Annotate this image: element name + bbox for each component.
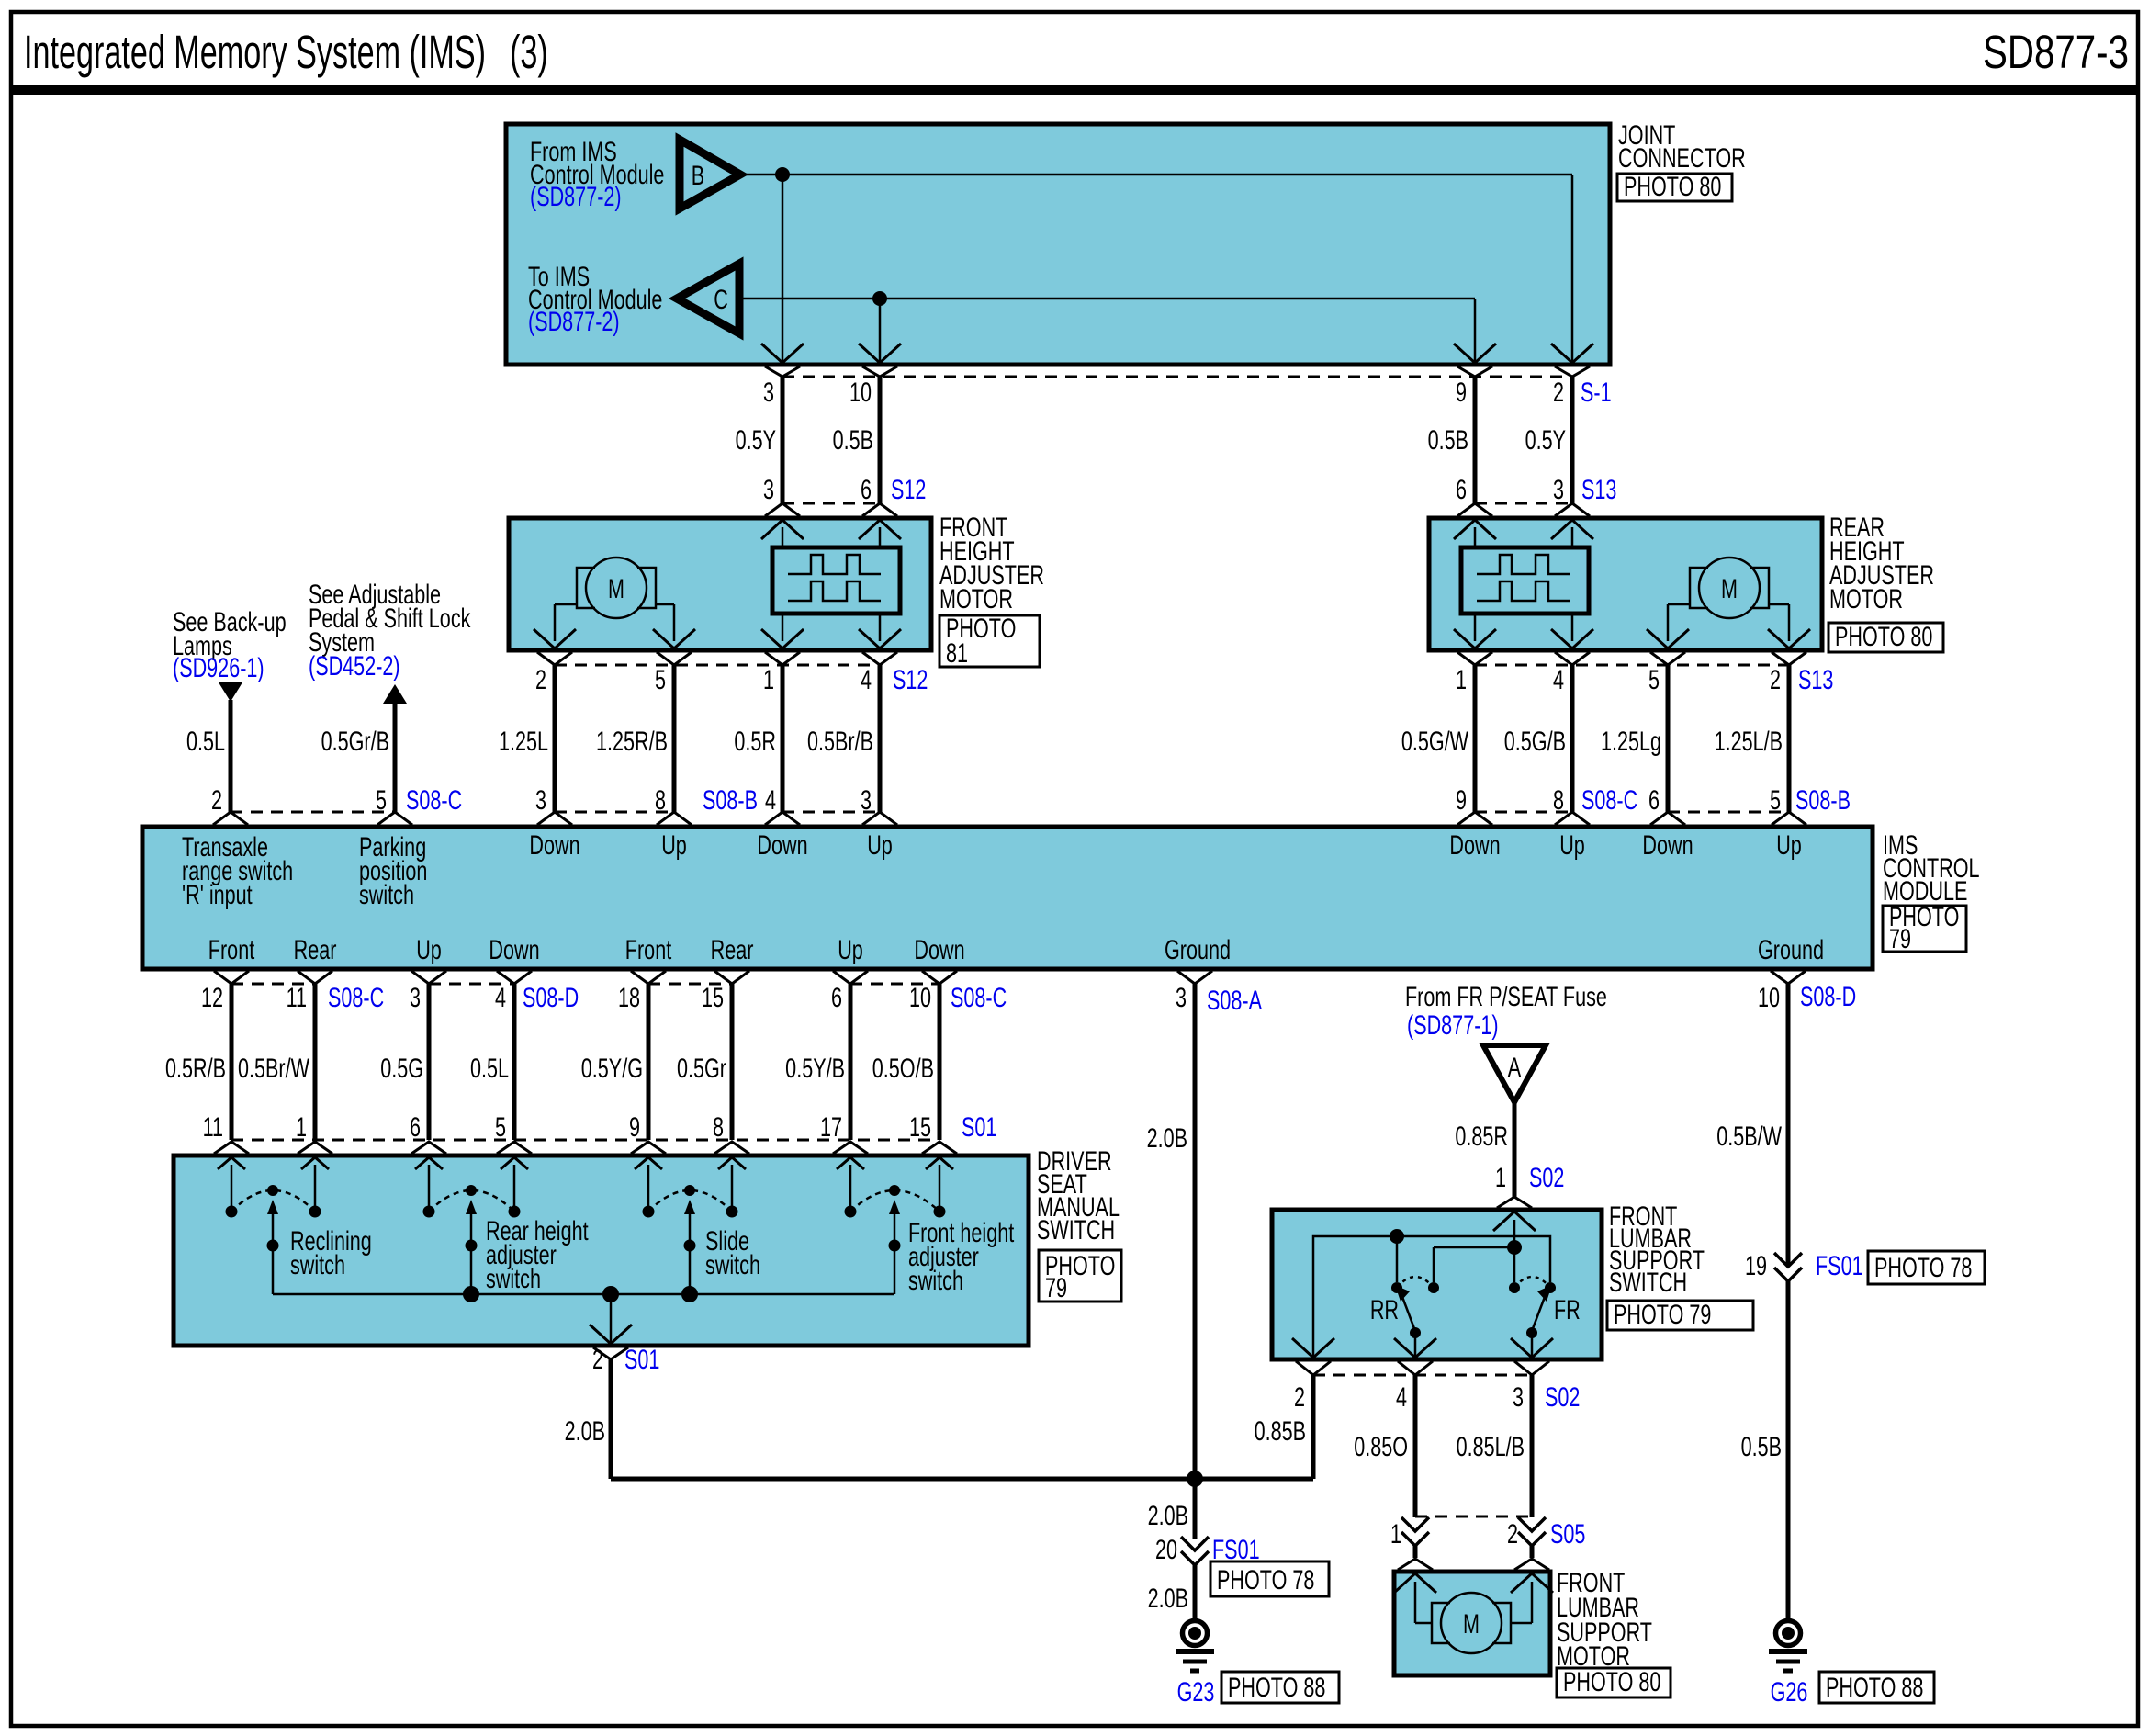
svg-text:4: 4 <box>1396 1381 1407 1412</box>
svg-text:2.0B: 2.0B <box>565 1415 605 1446</box>
svg-text:RR: RR <box>1370 1293 1399 1325</box>
svg-text:0.85R: 0.85R <box>1455 1120 1508 1151</box>
svg-text:M: M <box>1721 572 1738 603</box>
svg-text:1: 1 <box>1495 1161 1506 1192</box>
svg-text:0.5Y: 0.5Y <box>1525 423 1566 455</box>
svg-text:M: M <box>1463 1607 1480 1639</box>
svg-text:2.0B: 2.0B <box>1148 1582 1188 1613</box>
svg-text:Up: Up <box>661 829 687 860</box>
svg-text:(SD877-2): (SD877-2) <box>528 305 620 336</box>
svg-text:SWITCH: SWITCH <box>1609 1266 1687 1297</box>
svg-text:8: 8 <box>1553 783 1564 815</box>
svg-text:0.5Gr: 0.5Gr <box>677 1052 726 1083</box>
svg-text:1: 1 <box>296 1110 307 1142</box>
svg-text:SD877-3: SD877-3 <box>1983 25 2129 78</box>
svg-text:1.25L/B: 1.25L/B <box>1715 725 1783 756</box>
svg-text:1: 1 <box>1456 663 1467 694</box>
svg-text:9: 9 <box>629 1110 640 1142</box>
svg-text:S08-B: S08-B <box>1795 783 1851 815</box>
svg-text:S-1: S-1 <box>1581 376 1612 407</box>
svg-text:Rear: Rear <box>294 933 337 964</box>
svg-text:PHOTO 80: PHOTO 80 <box>1563 1665 1660 1697</box>
svg-text:9: 9 <box>1456 376 1467 407</box>
svg-text:PHOTO 78: PHOTO 78 <box>1217 1563 1314 1595</box>
svg-text:B: B <box>692 159 704 190</box>
svg-text:FR: FR <box>1554 1293 1581 1325</box>
svg-text:1: 1 <box>763 663 774 694</box>
svg-text:15: 15 <box>909 1110 931 1142</box>
svg-text:G23: G23 <box>1177 1675 1215 1707</box>
svg-text:0.5G: 0.5G <box>380 1052 423 1083</box>
svg-text:0.5L: 0.5L <box>470 1052 509 1083</box>
svg-text:S08-D: S08-D <box>1800 980 1856 1011</box>
svg-text:S08-D: S08-D <box>523 981 579 1012</box>
svg-text:S02: S02 <box>1545 1381 1580 1412</box>
svg-text:5: 5 <box>1648 663 1660 694</box>
svg-text:3: 3 <box>1553 473 1564 504</box>
svg-text:Up: Up <box>838 933 863 964</box>
svg-text:PHOTO 78: PHOTO 78 <box>1874 1251 1972 1282</box>
svg-text:10: 10 <box>909 981 931 1012</box>
svg-text:79: 79 <box>1889 922 1911 953</box>
svg-text:(SD926-1): (SD926-1) <box>173 651 264 682</box>
svg-text:17: 17 <box>820 1110 842 1142</box>
svg-text:0.5R/B: 0.5R/B <box>165 1052 226 1083</box>
svg-text:Down: Down <box>529 829 579 860</box>
svg-text:Front: Front <box>208 933 255 964</box>
svg-text:1.25R/B: 1.25R/B <box>596 725 668 756</box>
svg-text:Up: Up <box>416 933 442 964</box>
svg-text:Down: Down <box>489 933 539 964</box>
svg-text:S08-C: S08-C <box>328 981 384 1012</box>
svg-text:Rear: Rear <box>711 933 754 964</box>
svg-text:3: 3 <box>535 783 546 815</box>
svg-text:0.5Y: 0.5Y <box>736 423 776 455</box>
svg-text:S08-C: S08-C <box>406 783 462 815</box>
svg-text:Integrated Memory System (IMS): Integrated Memory System (IMS) <box>24 27 486 78</box>
svg-text:10: 10 <box>849 376 872 407</box>
svg-text:C: C <box>714 283 728 314</box>
svg-text:0.5L: 0.5L <box>186 725 225 756</box>
svg-text:S05: S05 <box>1550 1517 1585 1549</box>
svg-text:0.5Br/B: 0.5Br/B <box>807 725 873 756</box>
svg-text:0.85B: 0.85B <box>1255 1415 1306 1446</box>
svg-text:From FR P/SEAT Fuse: From FR P/SEAT Fuse <box>1405 980 1607 1011</box>
svg-text:S13: S13 <box>1798 663 1833 694</box>
svg-text:S08-C: S08-C <box>951 981 1007 1012</box>
svg-text:S08-B: S08-B <box>703 783 758 815</box>
svg-text:0.5B: 0.5B <box>1741 1430 1782 1461</box>
svg-text:Down: Down <box>1642 829 1693 860</box>
svg-text:SWITCH: SWITCH <box>1037 1213 1115 1245</box>
svg-text:0.5Y/B: 0.5Y/B <box>785 1052 845 1083</box>
svg-text:0.5O/B: 0.5O/B <box>872 1052 934 1083</box>
svg-text:5: 5 <box>376 783 387 815</box>
svg-text:S12: S12 <box>893 663 928 694</box>
svg-text:8: 8 <box>713 1110 724 1142</box>
svg-text:2: 2 <box>1553 376 1564 407</box>
svg-text:5: 5 <box>495 1110 506 1142</box>
svg-text:81: 81 <box>946 637 968 668</box>
svg-text:5: 5 <box>1770 783 1781 815</box>
svg-text:(3): (3) <box>510 27 548 78</box>
svg-text:0.5R: 0.5R <box>734 725 776 756</box>
svg-text:(SD877-1): (SD877-1) <box>1407 1009 1499 1040</box>
svg-text:3: 3 <box>1176 981 1187 1012</box>
svg-text:6: 6 <box>1456 473 1467 504</box>
svg-text:2.0B: 2.0B <box>1148 1499 1188 1530</box>
svg-text:MOTOR: MOTOR <box>1829 582 1903 614</box>
svg-text:10: 10 <box>1758 981 1780 1012</box>
svg-text:switch: switch <box>486 1262 541 1293</box>
svg-text:4: 4 <box>495 981 506 1012</box>
svg-text:PHOTO 88: PHOTO 88 <box>1826 1671 1923 1702</box>
svg-text:PHOTO 88: PHOTO 88 <box>1228 1671 1325 1702</box>
svg-text:(SD452-2): (SD452-2) <box>309 649 400 681</box>
svg-text:20: 20 <box>1155 1533 1177 1564</box>
svg-text:Down: Down <box>914 933 964 964</box>
svg-text:19: 19 <box>1745 1249 1767 1280</box>
svg-text:S12: S12 <box>891 473 926 504</box>
svg-text:FS01: FS01 <box>1816 1249 1863 1280</box>
svg-text:0.5G/B: 0.5G/B <box>1504 725 1566 756</box>
svg-text:0.5Br/W: 0.5Br/W <box>238 1052 309 1083</box>
svg-text:12: 12 <box>201 981 223 1012</box>
svg-text:3: 3 <box>763 473 774 504</box>
svg-text:2: 2 <box>1294 1381 1305 1412</box>
svg-text:CONNECTOR: CONNECTOR <box>1618 141 1746 173</box>
svg-text:4: 4 <box>861 663 872 694</box>
svg-text:Up: Up <box>1559 829 1585 860</box>
svg-text:4: 4 <box>1553 663 1564 694</box>
svg-text:switch: switch <box>908 1264 963 1295</box>
svg-text:(SD877-2): (SD877-2) <box>530 180 622 211</box>
svg-text:3: 3 <box>1513 1381 1524 1412</box>
svg-text:1: 1 <box>1390 1517 1401 1549</box>
svg-text:switch: switch <box>705 1248 760 1279</box>
svg-text:'R' input: 'R' input <box>182 878 253 909</box>
svg-text:Down: Down <box>757 829 807 860</box>
svg-text:4: 4 <box>765 783 776 815</box>
svg-text:8: 8 <box>655 783 666 815</box>
svg-text:0.5Gr/B: 0.5Gr/B <box>321 725 389 756</box>
svg-text:3: 3 <box>861 783 872 815</box>
svg-text:1.25L: 1.25L <box>499 725 548 756</box>
svg-text:S01: S01 <box>624 1343 659 1374</box>
svg-text:11: 11 <box>203 1110 223 1142</box>
svg-text:switch: switch <box>359 878 414 909</box>
svg-text:2: 2 <box>211 783 222 815</box>
svg-text:PHOTO 79: PHOTO 79 <box>1614 1298 1711 1329</box>
svg-text:2: 2 <box>1770 663 1781 694</box>
svg-text:S08-C: S08-C <box>1581 783 1637 815</box>
svg-text:0.85L/B: 0.85L/B <box>1457 1430 1525 1461</box>
svg-text:6: 6 <box>831 981 842 1012</box>
svg-text:0.85O: 0.85O <box>1354 1430 1408 1461</box>
svg-text:2: 2 <box>592 1343 603 1374</box>
svg-text:Ground: Ground <box>1758 933 1824 964</box>
svg-text:1.25Lg: 1.25Lg <box>1601 725 1661 756</box>
svg-text:S01: S01 <box>962 1110 996 1142</box>
svg-text:Up: Up <box>1776 829 1802 860</box>
svg-text:Down: Down <box>1449 829 1500 860</box>
svg-text:S02: S02 <box>1529 1161 1564 1192</box>
svg-text:0.5B: 0.5B <box>1428 423 1468 455</box>
svg-text:0.5G/W: 0.5G/W <box>1401 725 1468 756</box>
svg-text:11: 11 <box>287 981 307 1012</box>
svg-text:79: 79 <box>1045 1271 1067 1302</box>
svg-text:5: 5 <box>655 663 666 694</box>
svg-text:2: 2 <box>535 663 546 694</box>
svg-text:MOTOR: MOTOR <box>939 582 1013 614</box>
svg-text:Front: Front <box>625 933 672 964</box>
svg-text:0.5B: 0.5B <box>833 423 873 455</box>
svg-text:S08-A: S08-A <box>1207 984 1262 1015</box>
svg-text:6: 6 <box>410 1110 421 1142</box>
svg-text:3: 3 <box>410 981 421 1012</box>
svg-text:15: 15 <box>702 981 724 1012</box>
svg-text:2: 2 <box>1507 1517 1518 1549</box>
svg-text:3: 3 <box>763 376 774 407</box>
svg-text:0.5B/W: 0.5B/W <box>1716 1120 1782 1151</box>
svg-text:9: 9 <box>1456 783 1467 815</box>
svg-text:6: 6 <box>1648 783 1660 815</box>
svg-text:Ground: Ground <box>1165 933 1231 964</box>
svg-text:18: 18 <box>618 981 640 1012</box>
svg-text:M: M <box>608 572 624 603</box>
svg-text:PHOTO 80: PHOTO 80 <box>1835 620 1932 651</box>
svg-text:0.5Y/G: 0.5Y/G <box>581 1052 643 1083</box>
svg-text:S13: S13 <box>1581 473 1616 504</box>
svg-text:switch: switch <box>290 1248 345 1279</box>
svg-text:Up: Up <box>867 829 893 860</box>
svg-text:2.0B: 2.0B <box>1147 1122 1187 1153</box>
svg-text:A: A <box>1508 1051 1522 1082</box>
svg-text:PHOTO 80: PHOTO 80 <box>1624 170 1721 201</box>
svg-text:G26: G26 <box>1771 1675 1808 1707</box>
svg-text:6: 6 <box>861 473 872 504</box>
